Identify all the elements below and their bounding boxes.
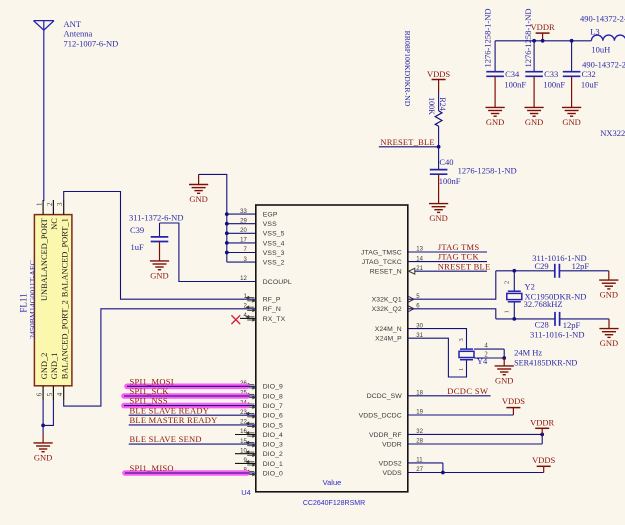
wire BLE SLAVE SEND bbox=[129, 443, 256, 445]
svg-text:BLE SLAVE READY: BLE SLAVE READY bbox=[130, 405, 210, 415]
svg-text:1276-1258-1-ND: 1276-1258-1-ND bbox=[483, 8, 493, 67]
junction FL11 gnd net bbox=[41, 424, 45, 428]
svg-text:ANT: ANT bbox=[64, 19, 82, 29]
wire bus to VSS_4 bbox=[227, 242, 256, 244]
svg-text:VSS_5: VSS_5 bbox=[263, 231, 285, 238]
power VDDS bottom bbox=[537, 465, 551, 467]
wire Y2 top rail bbox=[496, 270, 555, 272]
wire C29 gnd stem bbox=[608, 271, 610, 280]
svg-text:VDDS: VDDS bbox=[383, 470, 403, 477]
wire to Y2 pin2 bbox=[513, 271, 515, 291]
wire bus to VSS_2 bbox=[227, 261, 256, 263]
svg-text:100nF: 100nF bbox=[504, 80, 526, 90]
svg-text:X24M_N: X24M_N bbox=[375, 326, 402, 333]
svg-text:1276-1258-1-ND: 1276-1258-1-ND bbox=[458, 166, 517, 176]
wire SPI1_SCK bbox=[124, 395, 256, 397]
svg-text:100nF: 100nF bbox=[439, 176, 461, 186]
svg-text:4: 4 bbox=[56, 392, 64, 396]
wire FL11 pin3 to RF_P bbox=[64, 192, 256, 300]
svg-text:C34: C34 bbox=[505, 69, 520, 79]
svg-text:GND: GND bbox=[34, 453, 52, 463]
wire VDDR_RF bbox=[408, 433, 542, 435]
wire C39 top bbox=[159, 223, 161, 237]
svg-text:33: 33 bbox=[240, 209, 247, 215]
wire NRESET BLE bbox=[415, 270, 487, 272]
wire VDDR rail bbox=[495, 40, 591, 42]
svg-text:12pF: 12pF bbox=[572, 261, 590, 271]
svg-text:C33: C33 bbox=[544, 69, 558, 79]
svg-text:Y2: Y2 bbox=[525, 282, 535, 292]
svg-text:JTAG_TMSC: JTAG_TMSC bbox=[361, 249, 402, 256]
wire Y4 pin2 to gnd bbox=[474, 357, 504, 359]
antenna ANT symbol bbox=[34, 21, 55, 31]
svg-text:32.768kHZ: 32.768kHZ bbox=[524, 299, 563, 309]
highlight SPI1_SCK bbox=[124, 393, 247, 399]
wire SPI1_MISO bbox=[125, 472, 256, 474]
wire DIO_1 stub bbox=[235, 462, 256, 464]
wire JTAG TMS bbox=[408, 251, 487, 253]
svg-text:C39: C39 bbox=[130, 225, 144, 235]
svg-text:VDDS2: VDDS2 bbox=[379, 460, 402, 467]
wire VDDS pin27 bbox=[408, 472, 544, 474]
power VDDR bbox=[536, 32, 550, 34]
wire VDDR pin28 bbox=[408, 443, 542, 445]
svg-text:17: 17 bbox=[240, 238, 247, 244]
balun FL11 body bbox=[34, 215, 72, 386]
wire C33 to ground bbox=[533, 76, 535, 107]
power VDDR bottom bbox=[535, 427, 549, 429]
junction VSS bus bbox=[225, 212, 229, 216]
crystal Y4 bbox=[459, 349, 474, 360]
wire rail to C34 bbox=[494, 41, 496, 72]
wire VDDS_DCDC bbox=[408, 414, 514, 416]
wire gnd stem bbox=[198, 174, 200, 184]
capacitor C28 bbox=[555, 312, 560, 326]
wire DIO_4 stub bbox=[235, 434, 256, 436]
junction rail C32 bbox=[570, 39, 574, 43]
svg-text:C32: C32 bbox=[582, 69, 596, 79]
wire DIO_2 stub bbox=[235, 453, 256, 455]
wire C40 to ground bbox=[438, 174, 440, 203]
FL11 pin 2 (NC) bbox=[52, 200, 54, 215]
no-ERC red cross on RX_TX bbox=[231, 315, 240, 324]
svg-text:DIO_5: DIO_5 bbox=[263, 422, 283, 429]
svg-text:VDDS: VDDS bbox=[532, 455, 555, 465]
svg-text:BALANCED_PORT_2: BALANCED_PORT_2 bbox=[60, 300, 69, 379]
capacitor C39 bbox=[151, 237, 169, 242]
svg-text:1: 1 bbox=[36, 202, 44, 206]
svg-text:VDDS: VDDS bbox=[427, 69, 450, 79]
ground under C40 bbox=[429, 204, 448, 213]
svg-text:GND: GND bbox=[600, 338, 618, 348]
svg-text:C40: C40 bbox=[439, 157, 453, 167]
wire X32K_Q1 bbox=[408, 271, 496, 299]
crystal Y2 bbox=[507, 291, 522, 302]
svg-text:DIO_4: DIO_4 bbox=[263, 432, 283, 439]
junction VSS bus bbox=[225, 251, 229, 255]
wire Y4 gnd vertical bbox=[503, 349, 505, 358]
svg-text:R24: R24 bbox=[438, 97, 447, 110]
svg-text:DCOUPL: DCOUPL bbox=[263, 279, 292, 286]
svg-text:DIO_8: DIO_8 bbox=[263, 393, 283, 400]
IC U4 CC2640F128RSMR body bbox=[256, 205, 408, 492]
wire VDDR stem bottom bbox=[541, 428, 543, 434]
wire DCDC SW bbox=[408, 395, 491, 397]
junction VSS bus bbox=[225, 241, 229, 245]
svg-text:1uF: 1uF bbox=[131, 242, 145, 252]
svg-text:2: 2 bbox=[504, 281, 511, 284]
FL11 pin 3 bbox=[63, 200, 65, 215]
junction NRESET_BLE node bbox=[437, 145, 441, 149]
svg-text:VDDR: VDDR bbox=[531, 22, 555, 32]
svg-text:UNBALANCED_PORT: UNBALANCED_PORT bbox=[40, 218, 49, 301]
wire VDDS2 join bbox=[442, 463, 444, 473]
wire Y4 gnd stem bbox=[503, 358, 505, 366]
FL11 pin 1 bbox=[42, 200, 44, 215]
svg-text:BLE SLAVE SEND: BLE SLAVE SEND bbox=[130, 434, 202, 444]
wire VDDR stem bbox=[542, 33, 544, 41]
svg-text:Antenna: Antenna bbox=[64, 29, 93, 39]
capacitor C29 bbox=[555, 264, 560, 278]
svg-text:20: 20 bbox=[240, 228, 247, 234]
svg-text:BALANCED_PORT_1: BALANCED_PORT_1 bbox=[60, 218, 69, 297]
svg-text:24M Hz: 24M Hz bbox=[514, 347, 542, 357]
wire FL11 pin6 down bbox=[42, 400, 44, 434]
svg-text:X24M_P: X24M_P bbox=[375, 336, 402, 343]
svg-text:12pF: 12pF bbox=[563, 320, 581, 330]
wire VDDS stem pin19 bbox=[512, 408, 514, 415]
svg-text:SPI1_SCK: SPI1_SCK bbox=[130, 386, 170, 396]
junction rail VDDR bbox=[541, 39, 545, 43]
wire antenna to FL11 pin 1 bbox=[43, 21, 45, 201]
svg-text:NRESET_BLE: NRESET_BLE bbox=[380, 137, 434, 147]
svg-text:SPI1_MOSI: SPI1_MOSI bbox=[130, 376, 174, 386]
svg-text:DIO_6: DIO_6 bbox=[263, 413, 283, 420]
highlight SPI1_MISO bbox=[125, 470, 247, 476]
svg-text:VSS_4: VSS_4 bbox=[263, 240, 285, 247]
svg-text:1: 1 bbox=[458, 368, 465, 371]
svg-text:RR08P100KDDKR-ND: RR08P100KDDKR-ND bbox=[403, 31, 412, 107]
svg-text:SPI1_NSS: SPI1_NSS bbox=[130, 396, 168, 406]
svg-text:GND: GND bbox=[189, 194, 207, 204]
svg-text:490-14372-2-ND: 490-14372-2-ND bbox=[582, 60, 625, 70]
svg-text:100K: 100K bbox=[427, 97, 436, 115]
wire C32 to ground bbox=[571, 76, 573, 107]
junction Y2 bottom bbox=[512, 317, 516, 321]
svg-text:DIO_2: DIO_2 bbox=[263, 451, 283, 458]
svg-text:VSS_3: VSS_3 bbox=[263, 250, 285, 257]
svg-text:VSS: VSS bbox=[263, 221, 277, 228]
capacitor C34 bbox=[486, 72, 504, 77]
capacitor C40 bbox=[430, 170, 448, 175]
svg-text:GND: GND bbox=[150, 271, 168, 281]
svg-text:DIO_0: DIO_0 bbox=[263, 470, 283, 477]
FL11 pin 5 bbox=[52, 386, 54, 400]
junction Y2 top bbox=[512, 269, 516, 273]
wire BLE MASTER READY bbox=[129, 424, 256, 426]
svg-text:X32K_Q2: X32K_Q2 bbox=[372, 306, 402, 313]
ground Y4 bbox=[495, 366, 514, 375]
ground under C32 bbox=[562, 107, 581, 116]
svg-text:NX3225SA: NX3225SA bbox=[600, 128, 625, 138]
svg-text:311-1016-1-ND: 311-1016-1-ND bbox=[530, 329, 584, 339]
svg-text:GND: GND bbox=[562, 117, 580, 127]
svg-text:4: 4 bbox=[484, 342, 488, 349]
wire R24 to node bbox=[438, 126, 440, 147]
wire RX_TX stub bbox=[240, 317, 256, 319]
inductor L3 bbox=[591, 35, 625, 41]
svg-text:DCDC_SW: DCDC_SW bbox=[367, 393, 403, 400]
svg-text:1: 1 bbox=[504, 310, 511, 313]
svg-text:GND: GND bbox=[429, 213, 447, 223]
capacitor C33 bbox=[525, 72, 543, 77]
svg-text:VDDS: VDDS bbox=[502, 396, 525, 406]
ground under C33 bbox=[525, 107, 544, 116]
wire C39 to DCOUPL bbox=[160, 223, 256, 282]
svg-text:311-1372-6-ND: 311-1372-6-ND bbox=[129, 213, 183, 223]
svg-text:GND: GND bbox=[600, 290, 618, 300]
svg-text:5: 5 bbox=[46, 392, 54, 396]
svg-text:X32K_Q1: X32K_Q1 bbox=[372, 297, 402, 304]
wire FL11 pin4 to RF_N bbox=[64, 309, 256, 406]
wire C28 gnd stem bbox=[608, 319, 610, 329]
svg-text:VDDS_DCDC: VDDS_DCDC bbox=[359, 412, 402, 419]
svg-text:3: 3 bbox=[458, 338, 465, 341]
svg-text:6: 6 bbox=[36, 392, 44, 396]
FL11 pin 4 bbox=[63, 386, 65, 400]
svg-text:EGP: EGP bbox=[263, 212, 278, 219]
highlight SPI1_MOSI bbox=[127, 383, 247, 389]
wire SPI1_MOSI bbox=[127, 385, 256, 387]
pin 5 clock chevron bbox=[409, 296, 414, 302]
svg-text:GND_1: GND_1 bbox=[50, 353, 59, 380]
wire rail to C32 bbox=[571, 41, 573, 72]
wire X32K_Q2 bbox=[408, 309, 496, 319]
capacitor C32 bbox=[563, 72, 581, 77]
wire NRESET_BLE bbox=[379, 146, 439, 148]
svg-text:RF_P: RF_P bbox=[263, 297, 281, 304]
svg-text:DIO_7: DIO_7 bbox=[263, 403, 283, 410]
wire VDDR join bbox=[541, 434, 543, 444]
svg-text:VDDR_RF: VDDR_RF bbox=[369, 432, 402, 439]
svg-text:10uH: 10uH bbox=[591, 44, 610, 54]
wire FL11 pin5 to pin6 net bbox=[43, 400, 53, 425]
svg-text:VDDR: VDDR bbox=[382, 441, 402, 448]
wire bus to VSS_5 bbox=[227, 232, 256, 234]
junction Y4 gnd bbox=[502, 356, 506, 360]
wire VDDS stem bbox=[438, 80, 440, 93]
ground C28 bbox=[599, 329, 618, 338]
ground C29 bbox=[599, 280, 618, 289]
wire VDDS stem bottom bbox=[543, 466, 545, 472]
svg-text:GND: GND bbox=[525, 117, 543, 127]
svg-text:CC2640F128RSMR: CC2640F128RSMR bbox=[303, 500, 365, 507]
svg-text:DIO_9: DIO_9 bbox=[263, 384, 283, 391]
svg-text:DIO_3: DIO_3 bbox=[263, 442, 283, 449]
wire VDDS2 bbox=[408, 462, 443, 464]
wire node to C40 bbox=[438, 147, 440, 170]
junction VDDR bbox=[540, 433, 544, 437]
FL11 pin 6 bbox=[42, 386, 44, 400]
svg-text:100nF: 100nF bbox=[543, 80, 565, 90]
svg-text:JTAG_TCKC: JTAG_TCKC bbox=[362, 259, 402, 266]
svg-text:VDDR: VDDR bbox=[530, 417, 554, 427]
pin 6 clock chevron bbox=[409, 306, 414, 312]
svg-text:490-14372-2-ND: 490-14372-2-ND bbox=[580, 13, 625, 23]
wire JTAG TCK bbox=[408, 261, 487, 263]
wire to R24 bbox=[438, 92, 440, 111]
junction VDDS2/VDDS bbox=[441, 471, 445, 475]
power VDDS (pin19) bbox=[506, 407, 520, 409]
power VDDS top bbox=[432, 79, 446, 81]
svg-text:2: 2 bbox=[46, 202, 54, 206]
svg-text:RESET_N: RESET_N bbox=[370, 269, 402, 276]
svg-text:SER4185DKR-ND: SER4185DKR-ND bbox=[514, 359, 577, 368]
svg-text:DIO_1: DIO_1 bbox=[263, 461, 283, 468]
resistor R24 bbox=[435, 111, 442, 126]
junction VSS bus bbox=[225, 231, 229, 235]
wire C34 to ground bbox=[494, 76, 496, 107]
wire bus to VSS_3 bbox=[227, 252, 256, 254]
wire C39 to ground bbox=[159, 242, 161, 261]
wire from Y2 pin1 bbox=[513, 302, 515, 319]
svg-text:SPI1_MISO: SPI1_MISO bbox=[130, 463, 174, 473]
svg-text:10uF: 10uF bbox=[581, 80, 599, 90]
ground under FL11 bbox=[34, 443, 53, 452]
pin 21 RESET_N input triangle bbox=[409, 268, 415, 274]
svg-text:FL11: FL11 bbox=[19, 293, 29, 312]
wire Y4 pin4 to gnd bbox=[474, 348, 504, 350]
svg-text:C28: C28 bbox=[535, 319, 549, 329]
svg-text:JTAG TCK: JTAG TCK bbox=[438, 252, 480, 262]
svg-text:JTAG TMS: JTAG TMS bbox=[438, 242, 480, 252]
wire X24M_N to Y4 bbox=[408, 329, 467, 350]
ground under C34 bbox=[486, 107, 505, 116]
svg-text:GND_2: GND_2 bbox=[40, 353, 49, 380]
svg-text:VSS_2: VSS_2 bbox=[263, 260, 285, 267]
wire bus to VSS bbox=[227, 223, 256, 225]
ground above IC bbox=[189, 185, 208, 194]
highlight SPI1_NSS bbox=[124, 403, 247, 409]
wire Y2 bottom rail bbox=[496, 318, 555, 320]
svg-text:C29: C29 bbox=[535, 261, 549, 271]
svg-text:29: 29 bbox=[240, 218, 247, 224]
wire SPI1_NSS bbox=[124, 405, 256, 407]
svg-text:Y4: Y4 bbox=[477, 356, 488, 366]
svg-text:Value: Value bbox=[323, 478, 342, 487]
svg-text:BLE MASTER READY: BLE MASTER READY bbox=[130, 415, 218, 425]
wire VSS bus bbox=[199, 174, 227, 262]
wire to ground bbox=[42, 434, 44, 443]
svg-text:L3: L3 bbox=[590, 27, 599, 37]
wire C29 to gnd corner bbox=[559, 270, 608, 272]
svg-text:DCDC SW: DCDC SW bbox=[447, 386, 488, 396]
wire C28 to gnd corner bbox=[560, 318, 609, 320]
svg-text:712-1007-6-ND: 712-1007-6-ND bbox=[64, 38, 119, 48]
svg-text:3: 3 bbox=[56, 202, 64, 206]
junction VSS bus bbox=[225, 222, 229, 226]
junction rail C33 bbox=[532, 39, 536, 43]
svg-text:RX_TX: RX_TX bbox=[263, 316, 286, 323]
svg-text:NC: NC bbox=[50, 218, 59, 230]
wire rail to C33 bbox=[533, 41, 535, 72]
wire X24M_P to Y4 bbox=[408, 338, 467, 377]
ground under C39 bbox=[150, 261, 169, 270]
svg-text:RF_N: RF_N bbox=[263, 306, 281, 313]
svg-text:U4: U4 bbox=[241, 488, 251, 497]
svg-text:NRESET BLE: NRESET BLE bbox=[438, 261, 491, 271]
wire bus to EGP bbox=[227, 213, 256, 215]
wire BLE SLAVE READY bbox=[129, 414, 256, 416]
svg-text:12: 12 bbox=[240, 276, 247, 282]
svg-text:GND: GND bbox=[486, 117, 504, 127]
svg-text:GND: GND bbox=[495, 376, 513, 386]
svg-text:2450BM14G0011T-AEC: 2450BM14G0011T-AEC bbox=[28, 260, 37, 339]
svg-text:1276-1258-1-ND: 1276-1258-1-ND bbox=[523, 8, 533, 67]
